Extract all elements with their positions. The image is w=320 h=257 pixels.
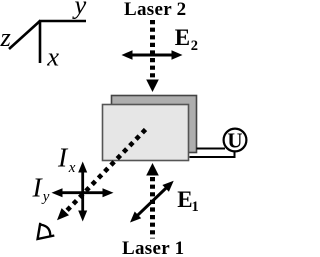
eye symbol — [38, 223, 55, 239]
svg-text:U: U — [227, 128, 242, 152]
axis z (diagonal line) — [9, 21, 41, 50]
svg-text:x: x — [68, 160, 76, 176]
wire lower — [190, 150, 235, 157]
voltmeter U circle — [224, 129, 247, 152]
axis y (horizontal line) — [39, 20, 86, 23]
Iy arrow (horizontal double arrow) — [60, 191, 105, 194]
Ix arrow (vertical double arrow) — [81, 170, 84, 213]
E2 arrow (horizontal double arrow) — [130, 54, 174, 57]
laser 1 beam arrowhead — [146, 163, 159, 176]
laser 1 beam (dashed) — [150, 177, 155, 239]
svg-text:Laser 2: Laser 2 — [124, 0, 186, 20]
svg-text:Laser 1: Laser 1 — [122, 238, 184, 257]
svg-text:z: z — [0, 22, 11, 52]
svg-text:2: 2 — [191, 38, 198, 54]
scattered beam (diagonal dashed) — [65, 130, 146, 213]
wire upper — [197, 148, 226, 150]
scattered beam arrowhead — [57, 208, 69, 220]
axis x (vertical line) — [39, 20, 42, 63]
svg-text:x: x — [46, 41, 59, 71]
E1 arrow (diagonal double arrow) — [136, 187, 168, 217]
svg-text:y: y — [41, 189, 50, 205]
sample front plate (light gray) — [103, 105, 189, 161]
sample back plate (dark gray) — [112, 96, 197, 153]
svg-text:E: E — [177, 187, 192, 212]
svg-text:1: 1 — [192, 199, 199, 215]
svg-text:y: y — [72, 0, 87, 20]
laser 2 beam arrowhead — [146, 80, 159, 93]
laser 2 beam (dashed) — [150, 20, 155, 81]
svg-text:E: E — [175, 25, 190, 50]
